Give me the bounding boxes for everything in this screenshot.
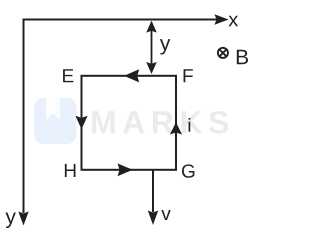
label v (161, 210, 170, 220)
square loop EFGH (82, 76, 177, 170)
current arrow on right edge (pointing up toward F) (170, 122, 182, 134)
y-axis arrowhead (18, 212, 28, 226)
y-axis line (left, downward) (23, 19, 25, 214)
x-axis line (24, 19, 218, 21)
dimension arrow y (double headed, from x-axis to top edge) (146, 21, 157, 74)
B field symbol (circle with cross, into page) (218, 48, 228, 58)
watermark logo (light blue rounded square with white bookmark) (34, 98, 77, 144)
label G (182, 164, 194, 177)
label H (65, 164, 76, 177)
x-axis arrowhead (215, 14, 229, 24)
label y (axis) (5, 213, 15, 228)
label x (229, 16, 239, 27)
velocity arrow v (downward from bottom edge) (152, 170, 154, 212)
label y (dimension) (160, 39, 170, 54)
current arrow on top edge (pointing left toward E) (124, 69, 139, 82)
label i (189, 118, 191, 132)
watermark text MARKS (92, 111, 228, 134)
label F (184, 69, 193, 82)
current arrow on left edge (pointing down toward H) (75, 116, 87, 130)
label B (237, 50, 248, 64)
label E (63, 69, 73, 82)
current arrow on bottom edge (pointing right toward G) (118, 163, 133, 176)
